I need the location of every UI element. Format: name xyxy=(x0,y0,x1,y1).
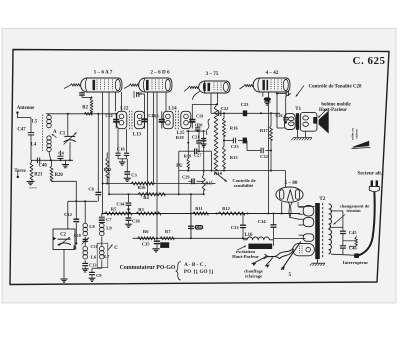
wire y201 node line xyxy=(68,200,98,202)
T2 taps xyxy=(331,211,343,227)
switch contact C xyxy=(108,245,119,251)
capacitor C4 xyxy=(58,151,65,161)
capacitor C27 xyxy=(194,149,203,158)
capacitor C9 xyxy=(89,260,102,278)
mains plug xyxy=(369,180,379,191)
svg-text:C4: C4 xyxy=(58,151,64,156)
svg-text:R13: R13 xyxy=(230,155,239,160)
label fond du chassis xyxy=(351,128,359,140)
svg-text:C7: C7 xyxy=(106,217,112,222)
capacitor C14 xyxy=(105,113,119,128)
mains cable xyxy=(355,192,375,256)
resistor R20 xyxy=(50,160,63,181)
svg-text:PO: PO xyxy=(184,269,191,275)
border frame xyxy=(10,50,389,285)
chassis wedge xyxy=(352,141,371,149)
coil L9 xyxy=(99,214,113,236)
capacitor C12 xyxy=(64,181,79,243)
resistor small R xyxy=(343,236,358,246)
wire V2 grid xyxy=(138,92,145,94)
capacitor C19 xyxy=(189,104,203,128)
resistor R16 xyxy=(223,113,239,136)
svg-text:L6: L6 xyxy=(91,256,97,261)
coil L4 xyxy=(31,115,51,161)
coil L5 xyxy=(32,114,52,128)
label excitation Haut-Parleur xyxy=(232,246,259,260)
heater wires chauffage twisted pair xyxy=(264,248,294,258)
svg-text:L8: L8 xyxy=(89,225,95,230)
wire x203 vertical xyxy=(203,131,205,171)
svg-text:R3: R3 xyxy=(138,207,144,212)
capacitor C34 field xyxy=(258,214,277,246)
svg-text:C36: C36 xyxy=(132,218,141,223)
svg-text:C18: C18 xyxy=(151,113,158,118)
antenna terminal (Antenne) xyxy=(16,106,35,118)
capacitor C25 branch xyxy=(224,138,247,151)
wire PU line y151 xyxy=(179,150,212,152)
svg-text:A - B - C ,: A - B - C , xyxy=(184,262,207,268)
oscillator padder box C2 xyxy=(53,229,75,250)
resistor R15 xyxy=(202,171,213,196)
capacitor C6 xyxy=(88,114,101,202)
capacitor C3 xyxy=(124,159,137,178)
wire B+ bus y213 xyxy=(102,213,300,215)
capacitor C46 xyxy=(340,234,358,255)
svg-text:5 – 80: 5 – 80 xyxy=(285,180,298,186)
wire V4 plate to T1 xyxy=(276,92,285,128)
svg-text:C16: C16 xyxy=(117,147,126,152)
ground below C36 xyxy=(125,221,132,228)
voice coil box xyxy=(300,113,317,132)
svg-text:C34: C34 xyxy=(258,219,267,224)
svg-text:Secteur alt.: Secteur alt. xyxy=(357,170,383,176)
resistor R12 xyxy=(218,206,245,215)
wire R20 to node B branch xyxy=(52,180,77,182)
resistor R22 xyxy=(104,153,113,185)
wire L5 top to C1 xyxy=(47,113,85,136)
label commutateur PO-GO xyxy=(120,265,176,271)
label controle de sensibilite xyxy=(215,172,256,189)
interrupteur switch xyxy=(331,253,368,265)
wire plate bus y114.5 xyxy=(84,113,117,115)
svg-text:Haut-Parleur: Haut-Parleur xyxy=(232,255,259,260)
svg-text:Commutateur PO-GO: Commutateur PO-GO xyxy=(120,265,176,271)
switch brace xyxy=(176,262,181,281)
pilot tube xyxy=(293,243,315,255)
wire C2 box top xyxy=(67,201,69,229)
svg-text:C14: C14 xyxy=(105,113,112,118)
svg-text:L9: L9 xyxy=(106,227,112,232)
squiggle lead tube V3 xyxy=(206,119,209,135)
ground below C3 xyxy=(124,178,131,181)
tube V3 75 (label 3 - 75) xyxy=(184,71,230,93)
label controle de tonalite C28 xyxy=(296,84,362,96)
tube V5 filament twisted leads xyxy=(288,202,299,219)
title C. 625 xyxy=(353,55,386,67)
svg-text:L5: L5 xyxy=(32,120,38,125)
svg-text:C9: C9 xyxy=(96,273,101,278)
svg-text:2 – 6 D 6: 2 – 6 D 6 xyxy=(150,70,170,76)
svg-text:C10: C10 xyxy=(74,233,81,238)
pick-up terminal PU xyxy=(176,151,183,194)
capacitor C22 xyxy=(219,106,230,116)
svg-text:C. 625: C. 625 xyxy=(353,55,386,67)
svg-text:R10: R10 xyxy=(138,185,147,190)
ground below C16 xyxy=(119,159,125,165)
variable capacitor C1 xyxy=(59,131,76,160)
capacitor C18 xyxy=(151,111,164,128)
svg-text:tension: tension xyxy=(346,209,361,214)
resistor R3 xyxy=(136,207,161,215)
svg-text:R5: R5 xyxy=(111,206,117,211)
ground below C9 xyxy=(89,278,96,281)
resistor R19 xyxy=(184,131,191,170)
svg-text:C19: C19 xyxy=(196,113,203,118)
svg-text:4 – 42: 4 – 42 xyxy=(266,70,279,76)
svg-text:L14: L14 xyxy=(168,106,177,111)
label Secteur alt. xyxy=(357,170,383,176)
svg-text:PU: PU xyxy=(176,164,183,169)
wire V4 screen lead xyxy=(267,92,269,214)
wire diode line y104 xyxy=(192,103,218,105)
svg-text:R19: R19 xyxy=(184,153,191,158)
resistor R1 series xyxy=(84,112,92,115)
svg-text:R18: R18 xyxy=(176,135,185,140)
resistor R21 xyxy=(30,160,43,180)
wire y238 line xyxy=(133,214,248,240)
svg-text:R22: R22 xyxy=(104,167,113,172)
svg-text:C2: C2 xyxy=(60,232,66,237)
capacitor C16 pair xyxy=(115,129,129,159)
IF transformer core L12 xyxy=(129,111,132,130)
wire V3 diode lead xyxy=(193,92,200,100)
capacitor C29 xyxy=(182,174,204,184)
capacitor C13 xyxy=(82,263,97,269)
ground below C2 box xyxy=(60,250,67,283)
power transformer T2 core xyxy=(315,197,326,259)
svg-text:R12: R12 xyxy=(222,206,231,211)
potentiometer R14 xyxy=(214,104,223,176)
resistor R7 xyxy=(160,229,174,240)
capacitor C30 with label box xyxy=(188,214,203,239)
heater feed arrow left xyxy=(252,256,267,266)
svg-text:R17: R17 xyxy=(260,128,269,133)
tube V1 6A7 (label 1 - 6 A 7) xyxy=(64,70,122,93)
speaker cone xyxy=(319,111,329,134)
T2 secondary coils xyxy=(329,204,332,254)
svg-text:L7: L7 xyxy=(104,255,110,260)
resistor R6 xyxy=(138,229,155,240)
svg-text:Contrôle de Tonalité C28: Contrôle de Tonalité C28 xyxy=(309,84,362,89)
svg-text:C13: C13 xyxy=(89,263,97,268)
svg-text:Terre: Terre xyxy=(14,169,26,174)
capacitor C47 xyxy=(17,128,34,161)
svg-text:C34: C34 xyxy=(116,202,125,207)
capacitor C21 xyxy=(192,131,202,151)
wire C30 riser xyxy=(190,194,192,213)
dial lamp lead diagonal xyxy=(281,242,301,278)
svg-text:R21: R21 xyxy=(34,173,43,178)
IF transformer L15 secondary xyxy=(176,111,191,140)
svg-text:Interrupteur: Interrupteur xyxy=(343,261,368,266)
capacitor C26 xyxy=(275,113,288,123)
wiper contact A xyxy=(52,130,57,137)
svg-text:C23: C23 xyxy=(241,102,250,107)
svg-text:1 – 6 A 7: 1 – 6 A 7 xyxy=(94,70,113,76)
capacitor C20 xyxy=(195,122,202,130)
svg-text:masse: masse xyxy=(29,186,37,190)
IF transformer L14 primary xyxy=(163,106,177,128)
svg-text:C3: C3 xyxy=(131,172,137,177)
svg-text:R11: R11 xyxy=(195,206,203,211)
svg-text:L12: L12 xyxy=(120,106,129,111)
capacitor C31 xyxy=(90,244,97,249)
tube V5 80 rectifier (label 5 - 80) xyxy=(276,180,303,202)
resistor R11 xyxy=(193,206,208,215)
resistor R17 xyxy=(260,113,273,170)
svg-text:C25: C25 xyxy=(231,144,240,149)
svg-text:C27: C27 xyxy=(194,153,203,158)
capacitor C23 xyxy=(241,102,250,116)
switch positions text xyxy=(184,262,213,275)
svg-text:éclairage: éclairage xyxy=(245,273,262,278)
capacitor C5 cathode bypass xyxy=(79,92,92,99)
output transformer T1 xyxy=(285,107,302,130)
electrolytic block xyxy=(160,242,169,248)
svg-text:C22: C22 xyxy=(221,106,230,111)
ground below C13 xyxy=(82,269,89,272)
label chauffage eclairage xyxy=(244,269,263,279)
ground below C35 xyxy=(152,244,159,252)
svg-text:R20: R20 xyxy=(55,173,64,178)
node B xyxy=(73,242,77,251)
wire V1 leads down xyxy=(103,92,122,214)
svg-text:C29: C29 xyxy=(196,226,202,230)
resistor R2 xyxy=(82,98,93,114)
capacitor C40 xyxy=(37,158,47,169)
capacitor C45 xyxy=(340,211,357,235)
heater feed arrow right xyxy=(266,258,273,268)
svg-text:GO: GO xyxy=(199,269,207,275)
capacitor C15 xyxy=(141,94,155,129)
capacitor C36 xyxy=(126,214,141,224)
wire AVC line y113 xyxy=(211,112,280,114)
svg-text:C32: C32 xyxy=(260,154,269,159)
coil L8 xyxy=(83,201,95,236)
T2 winding loop upper xyxy=(299,206,314,217)
wire bottom detector return y170 xyxy=(179,170,286,187)
wire ground bus y160 xyxy=(31,159,73,161)
wire node line y131 xyxy=(186,130,205,132)
svg-text:R7: R7 xyxy=(165,229,171,234)
svg-text:C45: C45 xyxy=(349,230,358,235)
coil L7 xyxy=(97,237,110,268)
capacitor C34 xyxy=(116,194,131,213)
svg-text:C1: C1 xyxy=(59,131,65,136)
resistor R4 xyxy=(138,193,165,200)
svg-text:châssis: châssis xyxy=(355,128,359,138)
trimmer C10 xyxy=(74,233,89,247)
T2 winding loop low xyxy=(299,234,314,242)
svg-text:Antenne: Antenne xyxy=(17,106,35,111)
svg-text:C31: C31 xyxy=(90,244,97,249)
cathode capacitor below V2 xyxy=(134,91,141,98)
wire y194 line xyxy=(108,193,204,195)
coil L6 xyxy=(83,246,97,263)
field coil L16 xyxy=(243,233,274,240)
wire V2 leads down xyxy=(148,92,167,238)
label bobine mobile Haut-Parleur xyxy=(318,102,351,117)
IF transformer L13 secondary xyxy=(133,111,145,137)
svg-text:R4: R4 xyxy=(143,195,149,200)
wire antenna to C47 xyxy=(17,118,31,132)
IF transformer core L14 xyxy=(176,111,179,130)
svg-text:L4: L4 xyxy=(31,143,37,148)
resistor R13 xyxy=(223,146,239,171)
wire x211 to pot bottom xyxy=(210,151,212,170)
ground below C1 xyxy=(62,160,69,167)
svg-text:C6: C6 xyxy=(88,186,94,191)
svg-text:C33: C33 xyxy=(231,225,240,230)
svg-text:R16: R16 xyxy=(230,125,239,130)
svg-text:R15: R15 xyxy=(205,180,212,185)
svg-text:5: 5 xyxy=(288,272,291,278)
label changement de tension xyxy=(334,204,370,224)
earth terminal (Terre) xyxy=(14,169,26,178)
capacitor C28 tone xyxy=(277,91,291,117)
svg-text:T2: T2 xyxy=(319,197,325,202)
tube V2 6D6 (label 2 - 6 D 6) xyxy=(124,70,172,93)
svg-text:L13: L13 xyxy=(133,132,142,137)
svg-text:C26: C26 xyxy=(275,113,282,118)
IF transformer L12 primary xyxy=(117,106,129,128)
resistor R10 xyxy=(131,182,153,190)
wire y183 line xyxy=(102,183,216,185)
svg-text:C35: C35 xyxy=(142,242,151,247)
svg-text:C40: C40 xyxy=(39,163,48,168)
ground hatch below T1 xyxy=(291,130,312,140)
wire R16-R13 node xyxy=(223,136,225,146)
svg-text:C12: C12 xyxy=(64,212,73,217)
resistor R5 xyxy=(105,206,132,215)
svg-text:3 – 75: 3 – 75 xyxy=(206,71,219,77)
svg-text:C47: C47 xyxy=(17,128,26,133)
svg-text:C: C xyxy=(114,246,118,251)
capacitor C35 xyxy=(142,238,160,246)
ground below R21 (masse) xyxy=(27,182,38,190)
capacitor C32 branch xyxy=(247,148,272,159)
svg-text:R2: R2 xyxy=(82,106,88,111)
ground below T2 xyxy=(310,259,325,266)
svg-text:bobine mobile: bobine mobile xyxy=(321,102,351,107)
cathode blob below V4 xyxy=(263,92,271,105)
cathode capacitor below V3 xyxy=(201,139,207,148)
capacitor C33 xyxy=(231,214,246,239)
svg-text:C20: C20 xyxy=(195,122,202,127)
svg-text:T1: T1 xyxy=(295,107,301,112)
svg-text:R6: R6 xyxy=(143,229,149,234)
svg-text:C29: C29 xyxy=(182,174,189,179)
T2 winding loop mid xyxy=(299,217,314,226)
wire rectifier plate leads xyxy=(282,202,316,214)
field coil block xyxy=(248,239,305,249)
tube V4 42 (label 4 - 42) xyxy=(240,70,291,92)
wire V3 leads xyxy=(211,93,218,113)
svg-text:sensibilité: sensibilité xyxy=(234,184,254,189)
